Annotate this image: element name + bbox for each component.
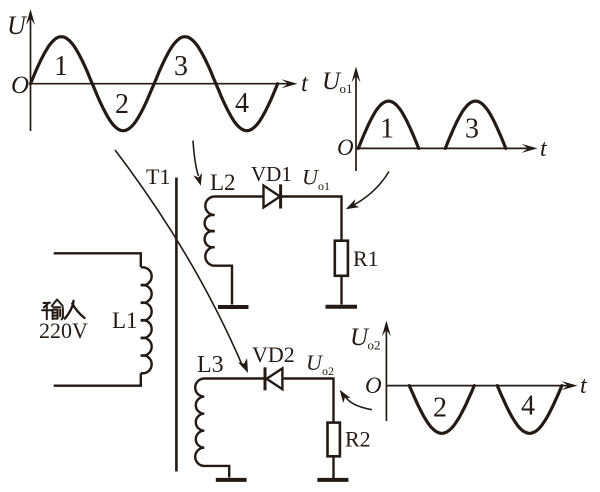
arrow: waveform half-cycle 2 to VD2 [115,150,243,367]
svg-text:R2: R2 [345,427,371,452]
arrow: Uo1 graph to output node [352,172,389,207]
svg-text:O: O [11,72,29,99]
svg-text:U: U [7,11,28,40]
graph: input voltage U vs t [7,9,309,131]
svg-text:1: 1 [380,114,394,145]
arrow: waveform to L2/VD1 [193,141,199,177]
hump 1 [358,101,418,148]
svg-text:L3: L3 [197,352,224,378]
ground (R2) [317,478,348,482]
trough 4 [497,386,562,434]
svg-text:4: 4 [521,391,535,422]
svg-text:1: 1 [54,51,68,82]
vertical axis [30,18,32,131]
diode VD1 [264,184,281,208]
svg-text:O: O [337,135,354,160]
graph: output Uo1 vs t [322,67,548,172]
diode VD2 [265,367,282,390]
horizontal axis t [31,83,289,85]
wire: VD1 to node Uo1 [282,197,342,242]
svg-text:o1: o1 [318,179,330,193]
graph: output Uo2 vs t [350,321,588,434]
sine wave [31,37,278,131]
vertical axis [385,329,387,421]
svg-text:o2: o2 [322,364,334,378]
wire: L1 bottom lead [54,373,141,386]
svg-text:2: 2 [433,393,447,424]
ground (L3) [216,478,247,482]
svg-text:t: t [301,70,309,97]
svg-text:t: t [580,373,588,399]
resistor R1 [335,241,348,276]
wire: R1 to ground [340,276,342,305]
hump 3 [445,101,506,148]
coil L1 [141,267,152,373]
svg-text:2: 2 [115,89,129,120]
svg-text:L2: L2 [210,170,236,195]
wire: L1 top lead [54,253,141,267]
wire: R2 to ground [332,456,334,478]
svg-text:VD1: VD1 [251,162,292,186]
svg-text:O: O [365,373,382,398]
arrow: Uo2 graph to output node [345,396,372,410]
ground (R1) [326,305,358,309]
text: shu-ru (input) [42,300,63,320]
horizontal axis t [356,147,528,149]
secondary winding L3 [195,379,264,478]
vertical axis [355,75,357,171]
svg-text:R1: R1 [353,246,379,271]
resistor R2 [328,423,340,457]
svg-text:4: 4 [235,88,249,119]
trough 2 [409,386,474,434]
transformer T1 core [175,178,178,472]
svg-text:t: t [540,136,548,162]
svg-text:220V: 220V [39,318,88,343]
(ru) [65,301,85,319]
svg-text:3: 3 [174,51,188,82]
ground (L2) [218,305,249,309]
primary winding L1 [54,253,152,385]
svg-text:VD2: VD2 [252,342,295,367]
svg-text:L1: L1 [112,308,138,333]
svg-text:o2: o2 [368,338,381,353]
horizontal axis t [386,385,568,387]
wire: VD2 to node Uo2 [284,379,334,423]
svg-text:o1: o1 [340,81,353,96]
svg-text:3: 3 [465,114,479,145]
svg-text:T1: T1 [146,164,170,189]
secondary winding L2 [205,197,263,305]
